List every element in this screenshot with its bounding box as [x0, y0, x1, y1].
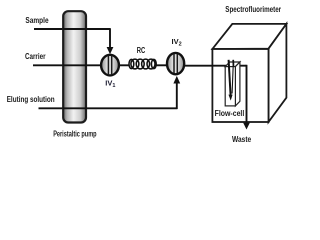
- wire eluting line: [39, 107, 178, 109]
- wire down to waste: [246, 65, 248, 124]
- wire sample through pump: [63, 28, 87, 30]
- wire IV2 to spectrofluorimeter: [184, 65, 246, 67]
- wire eluting through pump: [63, 107, 87, 109]
- spectrofluorimeter box front face: [212, 49, 268, 122]
- flow cell tube 2: [232, 60, 233, 93]
- wire sample down into IV1: [109, 28, 111, 48]
- svg-text:Sample: Sample: [25, 15, 49, 25]
- wire sample line: [34, 28, 110, 30]
- injection valve IV2: [167, 53, 184, 74]
- injection valve IV1: [101, 55, 119, 76]
- peristaltic pump body: [63, 11, 86, 122]
- svg-text:Carrier: Carrier: [25, 51, 46, 61]
- wire inside box to flow cell: [212, 65, 247, 67]
- flow cell tube 1: [229, 60, 231, 96]
- spectrofluorimeter box top face: [212, 24, 286, 49]
- reaction coil RC: [129, 59, 156, 69]
- arrowhead waste: [243, 123, 250, 130]
- wire carrier line: [33, 64, 102, 66]
- svg-text:RC: RC: [137, 46, 146, 55]
- arrowhead into IV2 bottom: [173, 76, 180, 84]
- svg-text:Flow-cell: Flow-cell: [215, 109, 245, 118]
- svg-text:Waste: Waste: [232, 134, 251, 144]
- wire IV1 to coil: [120, 64, 130, 66]
- flow cell cuvette top face: [225, 62, 240, 67]
- flow cell tube 2 top: [232, 60, 234, 67]
- flow cell cuvette front face: [225, 67, 235, 106]
- arrowhead into IV1 top: [107, 47, 114, 54]
- svg-text:Peristaltic pump: Peristaltic pump: [53, 130, 97, 139]
- flow cell tube arrowhead: [229, 95, 233, 101]
- svg-text:Spectrofluorimeter: Spectrofluorimeter: [225, 5, 281, 14]
- flow cell cuvette right face: [235, 62, 240, 106]
- wire eluting up into IV2: [176, 83, 178, 109]
- spectrofluorimeter box right face: [269, 24, 287, 122]
- svg-text:Eluting solution: Eluting solution: [7, 94, 55, 104]
- wire carrier through pump: [63, 64, 87, 66]
- wire coil to IV2: [156, 64, 167, 66]
